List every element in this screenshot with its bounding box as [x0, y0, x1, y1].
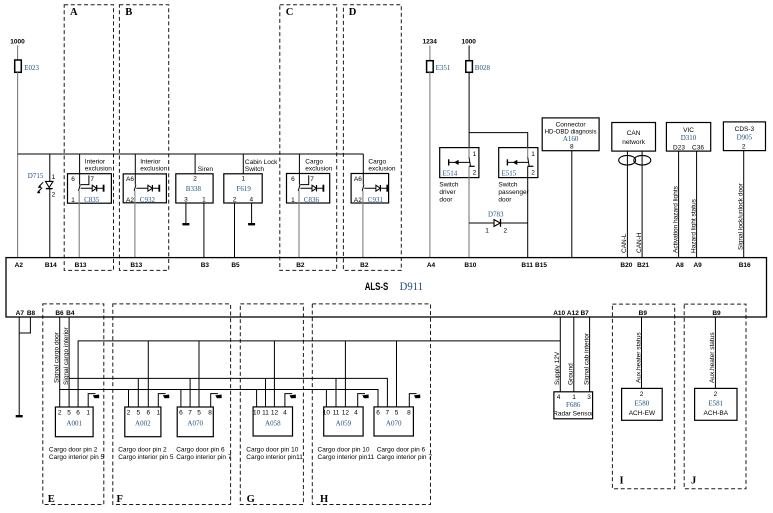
svg-text:12: 12 [271, 409, 279, 416]
wire B338 pin 3 to ground [185, 203, 187, 224]
wire bus line 3 [60, 390, 378, 408]
CAN network box [612, 123, 656, 152]
svg-text:6: 6 [376, 409, 380, 416]
pin 2 of A002 [127, 409, 131, 416]
pin B2 of ALS-S (top) [296, 262, 305, 269]
svg-text:Connector: Connector [556, 121, 587, 128]
wire pin B4 (signal cargo interior) [68, 317, 70, 407]
svg-text:6: 6 [179, 409, 183, 416]
pin 1 of C836 [291, 197, 295, 204]
wire pin A12 (ground) to F686 [573, 317, 575, 392]
wire bus to siren B338 [194, 154, 196, 174]
svg-text:2: 2 [473, 170, 477, 177]
svg-text:1: 1 [485, 228, 489, 235]
svg-text:B9: B9 [639, 310, 648, 317]
pin 1 of D783 [485, 228, 489, 235]
pin 6 of C836 [291, 176, 295, 183]
svg-text:Switch: Switch [439, 182, 459, 189]
svg-text:door: door [439, 196, 453, 203]
pin 7 of A070 [188, 409, 192, 416]
svg-text:8: 8 [570, 144, 574, 151]
svg-text:ALS-S: ALS-S [365, 281, 389, 293]
pin A10 of ALS-S (bottom) [553, 310, 565, 317]
radar sensor F686 [553, 392, 594, 419]
wire node 1000 to fuse E023 [17, 46, 19, 61]
wire node 1000 to fuse B028 [468, 46, 470, 61]
svg-text:6: 6 [76, 409, 80, 416]
wire to A070H pin 5 [396, 341, 398, 407]
svg-text:Cargo interior pin11: Cargo interior pin11 [246, 454, 303, 461]
svg-text:4: 4 [557, 394, 561, 401]
pin B9 of ALS-S (bottom) [712, 310, 721, 317]
net label Supply 12V [554, 351, 561, 385]
svg-text:exclusion: exclusion [140, 166, 167, 173]
svg-text:2: 2 [640, 391, 644, 398]
svg-text:7: 7 [385, 409, 389, 416]
wire E514 pin 2 down [468, 166, 470, 257]
wire pin B9 to E580 [641, 317, 643, 388]
svg-text:B3: B3 [201, 262, 210, 269]
pin 4 of F686 [557, 394, 561, 401]
wire bus line 2 [69, 378, 387, 407]
svg-text:B13: B13 [75, 262, 87, 269]
connection arrow at A059 pin 4 [358, 394, 369, 407]
connection arrow at A070 pin 8 (H) [409, 394, 420, 407]
pin 3 of F686 [587, 394, 591, 401]
svg-text:11: 11 [262, 409, 269, 416]
pin 1 of F619 [241, 176, 245, 183]
ground (cabin lock switch) [248, 223, 255, 225]
wire pin B9 to E581 [714, 317, 716, 388]
svg-text:4: 4 [249, 196, 253, 203]
net label Aux.heater status (E581) [709, 332, 716, 383]
svg-text:CDS-3: CDS-3 [735, 126, 755, 133]
svg-text:exclusion: exclusion [368, 166, 395, 173]
svg-text:E514: E514 [443, 170, 458, 178]
connector A001 [55, 407, 93, 437]
pin 3 of B338 [184, 196, 188, 203]
wire node 1234 to fuse E351 [429, 46, 431, 61]
wire F619 pin 4 to ground [251, 203, 253, 224]
svg-text:A2: A2 [354, 197, 362, 204]
ground (siren) [182, 223, 189, 225]
svg-text:2: 2 [503, 228, 507, 235]
switch C835 (Interior exclusion) [68, 159, 113, 204]
svg-text:exclusion: exclusion [305, 166, 332, 173]
pin B16 of ALS-S (top) [739, 262, 751, 269]
svg-text:2: 2 [193, 176, 197, 183]
wire to A002 pin 5 [137, 378, 139, 407]
net label Signal cargo interior [63, 326, 70, 385]
svg-text:Aux.heater status: Aux.heater status [635, 332, 642, 383]
twisted pair symbol [619, 155, 651, 165]
pin 4 of A058 [283, 409, 287, 416]
wire to A070F pin 5 [198, 341, 200, 407]
pin B21 of ALS-S (top) [637, 262, 649, 269]
fuse E351 [427, 61, 451, 73]
caption for A070 [176, 447, 232, 462]
pin 6 of A070 [376, 409, 380, 416]
svg-text:B10: B10 [464, 262, 476, 269]
pin B6 of ALS-S (bottom) [55, 310, 64, 317]
svg-text:G: G [247, 494, 255, 505]
svg-text:C36: C36 [692, 144, 704, 151]
siren B338 [176, 166, 214, 203]
svg-text:5: 5 [67, 409, 71, 416]
pin C36 of VIC [692, 144, 704, 151]
svg-text:E580: E580 [635, 399, 650, 407]
pin 11 of A058 [262, 409, 269, 416]
svg-text:D310: D310 [681, 134, 697, 142]
pin A6 of C932 [126, 176, 134, 183]
wire to A058 pin 10 [256, 390, 258, 408]
svg-text:VIC: VIC [683, 127, 694, 134]
pin A2 of C931 [354, 197, 362, 204]
zone J (dashed boundary) [684, 304, 746, 489]
pin B15 of ALS-S (top) [535, 262, 547, 269]
control unit ALS-S D911 [6, 258, 767, 317]
svg-text:B16: B16 [739, 262, 751, 269]
svg-text:Siren: Siren [198, 166, 214, 173]
svg-text:E581: E581 [708, 399, 723, 407]
svg-text:Signal cab interior: Signal cab interior [583, 332, 590, 385]
wire E514 to diode D783 to E515 [469, 222, 528, 224]
svg-text:C931: C931 [368, 196, 384, 204]
pin A6 of C931 [354, 176, 362, 183]
svg-text:E351: E351 [436, 64, 451, 72]
wire fuse B028 down to branch [468, 72, 470, 147]
wire A160 pin 8 to pin B15 [571, 151, 573, 258]
svg-text:B5: B5 [231, 262, 240, 269]
pin 12 of A059 [342, 409, 350, 416]
svg-text:D783: D783 [488, 211, 504, 219]
svg-text:1: 1 [202, 196, 206, 203]
wire pin A10 (supply 12V) to F686 [559, 317, 561, 392]
wire C835 to ALS-S [78, 191, 80, 258]
svg-text:Cargo door pin 2: Cargo door pin 2 [118, 447, 167, 454]
svg-text:A12: A12 [567, 310, 579, 317]
svg-text:B338: B338 [186, 185, 202, 193]
svg-text:1: 1 [572, 394, 576, 401]
svg-text:5: 5 [395, 409, 399, 416]
svg-text:ACH-EW: ACH-EW [629, 410, 656, 417]
svg-text:1234: 1234 [422, 39, 437, 46]
svg-text:B15: B15 [535, 262, 547, 269]
connector A070 [374, 407, 413, 436]
svg-text:1: 1 [52, 174, 56, 181]
node 1234 (supply) [422, 39, 437, 46]
pin B10 of ALS-S (top) [464, 262, 476, 269]
svg-text:B7: B7 [580, 310, 589, 317]
svg-text:driver: driver [439, 189, 456, 196]
svg-text:6: 6 [291, 176, 295, 183]
wire CAN-L to pin B20 [626, 151, 628, 258]
VIC D310 [666, 123, 710, 152]
svg-text:A4: A4 [427, 262, 436, 269]
svg-text:J: J [691, 476, 696, 487]
connection arrow at A070 pin 8 (F) [211, 394, 222, 407]
caption for A001 [49, 447, 105, 462]
pin 2 of CDS-3 [742, 143, 746, 150]
svg-text:CAN-L: CAN-L [621, 233, 628, 253]
svg-text:4: 4 [354, 409, 358, 416]
pin 1 of F686 [572, 394, 576, 401]
wire CAN-H to pin B21 [641, 151, 643, 258]
pin 7 of C835 [90, 176, 94, 183]
wire to A059 pin 12 [344, 341, 346, 407]
wire fuse E351 to pin A4 [429, 72, 431, 257]
svg-text:B6: B6 [55, 310, 64, 317]
zone A (dashed boundary) [64, 5, 113, 271]
wire to A058 pin 12 [273, 341, 275, 407]
svg-text:2: 2 [742, 143, 746, 150]
connection arrow at A001 pin 1 [88, 394, 99, 407]
pin B11 of ALS-S (top) [521, 262, 533, 269]
wire pin B6 (signal cargo door) [59, 317, 61, 407]
net label CAN-L [621, 233, 628, 253]
svg-text:A002: A002 [135, 419, 151, 427]
zone F (dashed boundary) [113, 304, 231, 505]
svg-text:A6: A6 [354, 176, 362, 183]
pin B9 of ALS-S (bottom) [639, 310, 648, 317]
svg-text:D23: D23 [673, 144, 685, 151]
pin 2 of E515 [531, 170, 535, 177]
svg-text:D715: D715 [28, 172, 44, 180]
wire E515 pin 2 down [527, 166, 529, 257]
wire branch to switch E515 [469, 133, 528, 148]
svg-text:ACH-BA: ACH-BA [704, 410, 729, 417]
svg-text:8: 8 [208, 409, 212, 416]
svg-text:B4: B4 [66, 310, 75, 317]
wire VIC D23 to pin A8 [678, 151, 680, 258]
svg-text:Cargo interior pin 5: Cargo interior pin 5 [49, 454, 105, 461]
pin A2 of ALS-S (top) [15, 262, 24, 269]
wire VIC C36 to pin A9 [696, 151, 698, 258]
svg-text:C932: C932 [140, 196, 156, 204]
connector A002 [125, 407, 161, 437]
pin B20 of ALS-S (top) [620, 262, 632, 269]
wire fuse E023 to bus and pin A2 [17, 72, 19, 257]
pin 2 of E581 [714, 391, 718, 398]
zone E (dashed boundary) [43, 304, 104, 505]
svg-text:F686: F686 [566, 401, 581, 409]
svg-text:D911: D911 [400, 281, 424, 293]
pin 1 of E514 [473, 151, 477, 158]
svg-text:Cargo: Cargo [368, 159, 386, 166]
pin B14 of ALS-S (top) [45, 262, 57, 269]
caption for A058 [246, 447, 303, 462]
svg-text:4: 4 [283, 409, 287, 416]
svg-text:Supply 12V: Supply 12V [554, 351, 561, 385]
pin 2 of D783 [503, 228, 507, 235]
wire B338 pin 1 to pin B3 [203, 203, 205, 258]
pin 12 of A058 [271, 409, 279, 416]
pin 2 of E580 [640, 391, 644, 398]
svg-text:E515: E515 [502, 170, 517, 178]
pin 7 of C836 [310, 176, 314, 183]
connector A070 [177, 407, 213, 437]
pin 2 of E514 [473, 170, 477, 177]
svg-text:Cargo interior pin 5: Cargo interior pin 5 [118, 454, 174, 461]
wire bus line 1 [78, 341, 560, 407]
svg-text:A058: A058 [265, 419, 281, 427]
svg-text:F: F [117, 494, 123, 505]
pin 2 of B338 [193, 176, 197, 183]
switch C932 (Interior exclusion) [123, 159, 167, 203]
svg-text:A9: A9 [693, 262, 702, 269]
svg-text:Aux.heater status: Aux.heater status [709, 332, 716, 383]
svg-text:I: I [620, 476, 624, 487]
wire F619 pin 2 to pin B5 [234, 203, 236, 258]
pin A12 of ALS-S (bottom) [567, 310, 579, 317]
svg-text:CAN-H: CAN-H [636, 232, 643, 253]
net label Aux.heater status (E580) [635, 332, 642, 383]
svg-text:7: 7 [188, 409, 192, 416]
wire main supply bus [18, 153, 364, 155]
pin 6 of C835 [71, 176, 75, 183]
svg-text:10: 10 [253, 409, 261, 416]
svg-text:B2: B2 [360, 262, 369, 269]
switch C836 (Cargo exclusion) [287, 159, 333, 203]
svg-text:B13: B13 [130, 262, 142, 269]
pin 10 of A058 [253, 409, 261, 416]
pin 5 of A001 [67, 409, 71, 416]
pin 1 of A002 [156, 409, 160, 416]
pin D23 of VIC [673, 144, 685, 151]
wire to A070F pin 6 [180, 390, 182, 408]
zone C (dashed boundary) [280, 5, 337, 271]
svg-text:B11: B11 [521, 262, 533, 269]
svg-text:Switch: Switch [498, 182, 518, 189]
net label Activation hazard lights [672, 185, 679, 253]
svg-text:Cargo interior pin 7: Cargo interior pin 7 [176, 454, 232, 461]
net label CAN-H [636, 232, 643, 253]
pin 1 of C835 [71, 197, 75, 204]
svg-text:7: 7 [90, 176, 94, 183]
wire bus to C835 [79, 154, 81, 185]
wire to A059 pin 10 [325, 390, 327, 408]
switch F619 (cabin lock switch) [224, 159, 278, 203]
svg-text:Cargo: Cargo [305, 159, 323, 166]
zone H (dashed boundary) [312, 304, 430, 505]
net label Signal lock/unlock door [738, 182, 745, 250]
pin 4 of A059 [354, 409, 358, 416]
svg-text:A2: A2 [15, 262, 24, 269]
svg-text:Switch: Switch [245, 166, 265, 173]
label C836 [304, 196, 320, 204]
svg-text:Radar Sensor: Radar Sensor [553, 410, 594, 417]
pin 2 of D715 [52, 192, 56, 199]
svg-text:E023: E023 [24, 64, 39, 72]
pin A7 of ALS-S (bottom) [16, 310, 25, 317]
pin 1 of E515 [531, 151, 535, 158]
svg-text:2: 2 [58, 409, 62, 416]
svg-text:H: H [320, 494, 328, 505]
pin 6 of A001 [76, 409, 80, 416]
pin 8 of A070 [208, 409, 212, 416]
aux heater E580 (ACH-EW) [622, 388, 663, 420]
label C932 [140, 196, 156, 204]
svg-text:1: 1 [291, 197, 295, 204]
pin 2 of F619 [233, 196, 237, 203]
svg-text:F619: F619 [237, 185, 252, 193]
svg-text:door: door [498, 196, 512, 203]
svg-text:1: 1 [71, 197, 75, 204]
svg-text:6: 6 [71, 176, 75, 183]
pin 7 of A070 [385, 409, 389, 416]
svg-text:Signal lock/unlock door: Signal lock/unlock door [738, 182, 745, 250]
wire bus to switch F619 [242, 154, 244, 174]
wire C836 to ALS-S [298, 191, 300, 258]
CDS-3 D905 [723, 122, 765, 151]
svg-text:B20: B20 [620, 262, 632, 269]
svg-text:Ground: Ground [568, 363, 575, 385]
pin B7 of ALS-S (bottom) [580, 310, 589, 317]
wire bus to C931 [362, 154, 364, 185]
LED D715 [28, 172, 53, 194]
svg-text:1: 1 [86, 409, 90, 416]
wire to A059 pin 11 [335, 378, 337, 407]
pin 1 of D715 [52, 174, 56, 181]
pin B13 of ALS-S (top) [75, 262, 87, 269]
pin B4 of ALS-S (bottom) [66, 310, 75, 317]
label C835 [84, 196, 100, 204]
pin B2 of ALS-S (top) [360, 262, 369, 269]
svg-text:10: 10 [323, 409, 331, 416]
svg-text:A6: A6 [126, 176, 134, 183]
pin A4 of ALS-S (top) [427, 262, 436, 269]
svg-text:6: 6 [146, 409, 150, 416]
svg-text:A7: A7 [16, 310, 25, 317]
wire to A002 pin 6 [147, 341, 149, 407]
pin A8 of ALS-S (top) [675, 262, 684, 269]
net label Signal cargo door [53, 331, 60, 383]
wire CDS-3 pin 2 to pin B16 [743, 151, 745, 258]
svg-text:C: C [286, 7, 294, 18]
svg-text:B9: B9 [712, 310, 721, 317]
label C931 [368, 196, 384, 204]
caption for A070 [377, 447, 433, 462]
svg-text:A001: A001 [66, 419, 82, 427]
svg-text:1: 1 [473, 151, 477, 158]
ground (A7/B8) [16, 415, 23, 417]
pin A9 of ALS-S (top) [693, 262, 702, 269]
caption for A002 [118, 447, 174, 462]
svg-text:2: 2 [52, 192, 56, 199]
aux heater E581 (ACH-BA) [695, 388, 737, 420]
svg-text:5: 5 [136, 409, 140, 416]
svg-text:Cargo door pin 10: Cargo door pin 10 [246, 447, 298, 454]
pin 8 of A070 [407, 409, 411, 416]
pin 2 of A001 [58, 409, 62, 416]
svg-text:A: A [70, 7, 78, 18]
svg-text:2: 2 [127, 409, 131, 416]
svg-text:1000: 1000 [10, 39, 25, 46]
pin 11 of A059 [333, 409, 340, 416]
svg-text:Signal cargo interior: Signal cargo interior [63, 326, 70, 385]
svg-text:Cargo interior pin11: Cargo interior pin11 [318, 454, 375, 461]
connector A160 (HD-OBD diagnosis) [542, 118, 599, 151]
svg-text:5: 5 [197, 409, 201, 416]
svg-text:1: 1 [531, 151, 535, 158]
net label Hazard light status [690, 198, 697, 253]
svg-text:Signal cargo door: Signal cargo door [53, 331, 60, 383]
wire bus to LED D715 pin 1 [49, 154, 51, 181]
caption for A059 [318, 447, 375, 462]
pin 6 of A070 [179, 409, 183, 416]
svg-text:1: 1 [241, 176, 245, 183]
svg-text:12: 12 [342, 409, 350, 416]
